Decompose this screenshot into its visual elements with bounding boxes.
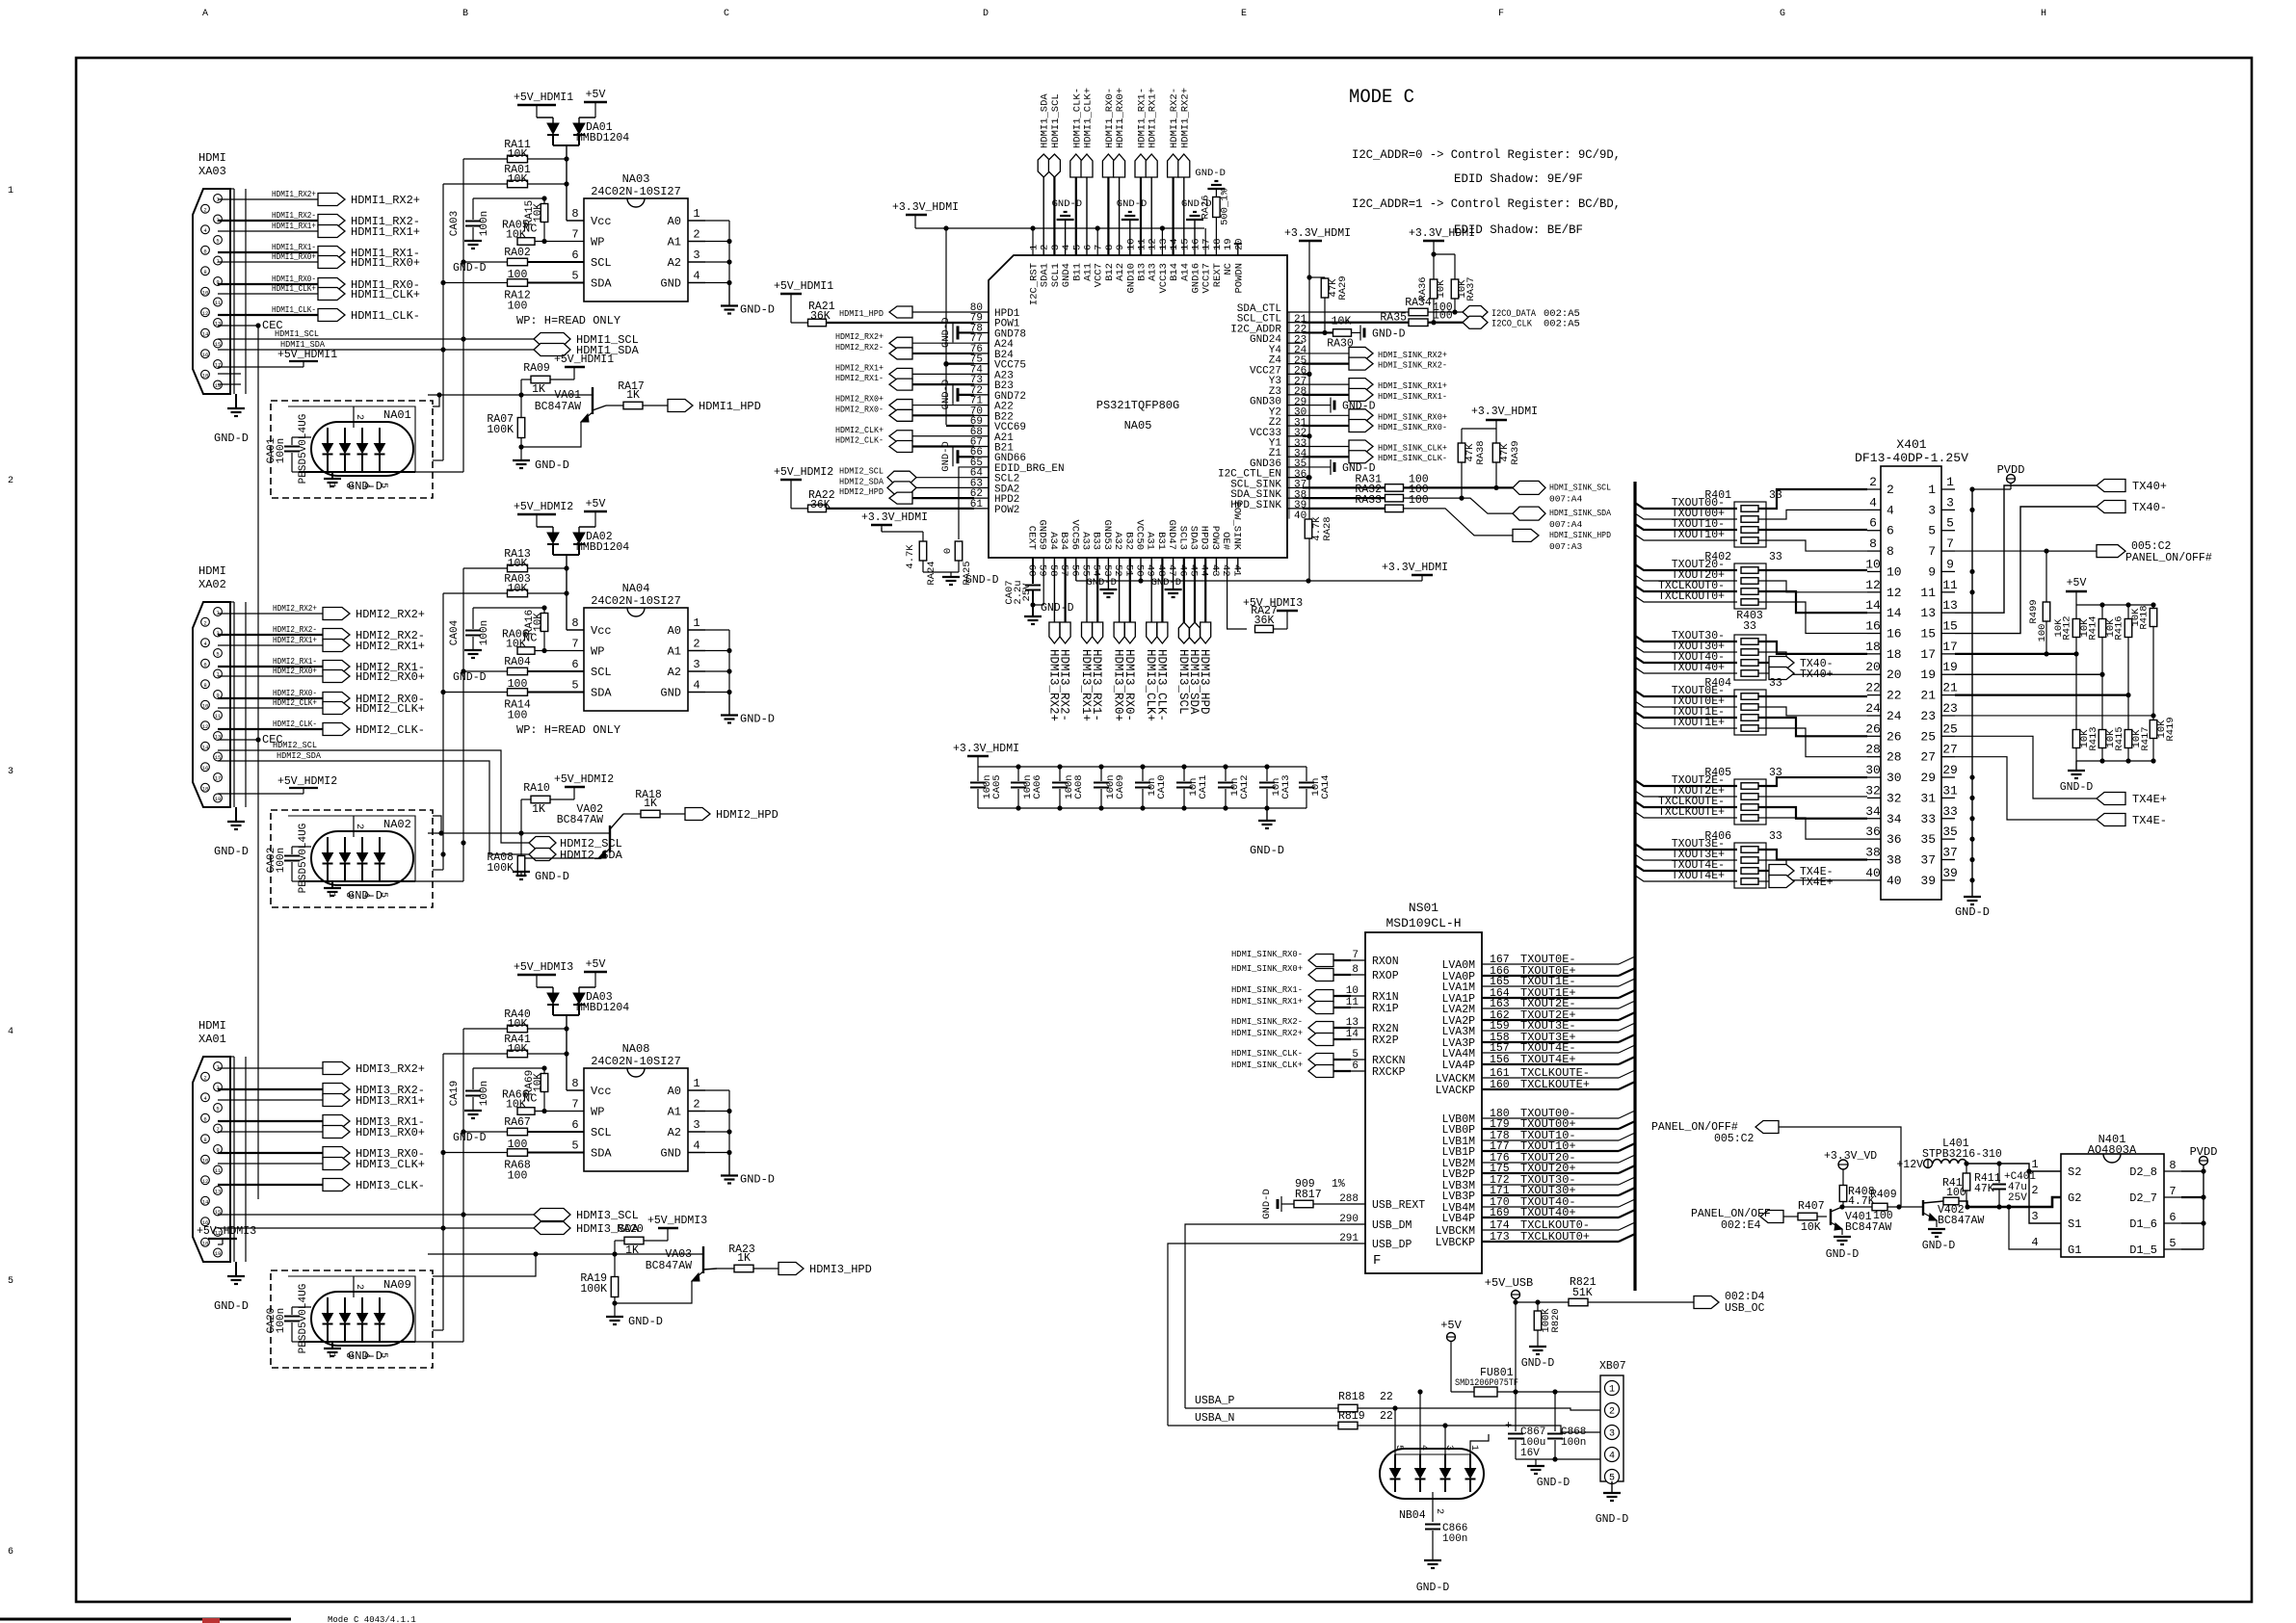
dual diode DA01 MMBD1204	[537, 117, 553, 118]
resistor R414 10K	[2101, 605, 2103, 619]
resistor RA25 0 vertical	[955, 541, 963, 561]
wire TXOUT40+	[1635, 668, 1737, 673]
svg-text:RX2P: RX2P	[1372, 1034, 1399, 1047]
svg-text:I2C_ADDR=1 -> Control Register: I2C_ADDR=1 -> Control Register: BC/BD,	[1352, 197, 1621, 211]
IC NA05 PS321TQFP80G body	[989, 255, 1287, 558]
wire TXOUT3E- to X401 pin 38	[1758, 850, 1867, 859]
svg-text:10K: 10K	[533, 203, 544, 223]
svg-text:12: 12	[1887, 586, 1902, 600]
svg-text:GND-D: GND-D	[348, 1349, 383, 1363]
ESD array NB04 stadium	[1380, 1449, 1484, 1499]
ground under C866	[1424, 1559, 1441, 1561]
svg-text:10K: 10K	[533, 1073, 544, 1092]
NB04 pin5 wire to USBA_P	[1394, 1408, 1396, 1454]
NA09 wires to SCL/SDA bus	[433, 1329, 443, 1331]
VA03 emitter	[615, 1271, 703, 1303]
net arrow HDMI3_RX0-	[323, 1147, 350, 1160]
net arrow HDMI2_CLK+ into NA05	[889, 431, 912, 442]
svg-text:4: 4	[1869, 495, 1877, 510]
wire CEC net XA03	[218, 325, 258, 327]
caps ground rail	[1516, 1458, 1555, 1460]
net arrow HDMI2_CLK-	[323, 723, 350, 736]
svg-text:MMBD1204: MMBD1204	[576, 1002, 629, 1014]
wire HDMI2_RX1+	[218, 644, 323, 646]
NA01 bottom rail	[299, 471, 415, 473]
svg-text:GND-D: GND-D	[535, 458, 569, 472]
svg-text:9: 9	[1946, 557, 1954, 571]
svg-text:10K: 10K	[508, 1018, 528, 1031]
wire HDMI_SINK_RX2-	[1303, 363, 1349, 365]
CA04 top wire to RA16	[473, 607, 544, 609]
resistor R499 100 on PANEL line	[2046, 551, 2097, 602]
svg-text:SCL: SCL	[591, 256, 612, 270]
svg-text:GND-D: GND-D	[1052, 198, 1083, 210]
svg-text:CA10: CA10	[1156, 774, 1168, 798]
svg-text:10K: 10K	[508, 558, 528, 570]
wire HDMI_SINK_RX1+	[1303, 383, 1349, 385]
NA02 bottom rail	[299, 880, 415, 882]
svg-text:4: 4	[1061, 245, 1072, 250]
hex tag HDMI2_SCL into NA05	[887, 471, 916, 484]
svg-text:4: 4	[2031, 1236, 2038, 1249]
svg-text:GND-D: GND-D	[740, 303, 775, 317]
svg-text:RX1P: RX1P	[1372, 1003, 1399, 1015]
wire USBA_N	[1168, 1425, 1338, 1427]
NA09 diode 4	[375, 1314, 385, 1323]
svg-text:HDMI_SINK_HPD: HDMI_SINK_HPD	[1549, 530, 1611, 540]
net arrow HDMI3_RX1-	[323, 1115, 350, 1128]
svg-text:10: 10	[1887, 564, 1902, 579]
svg-text:R414: R414	[2088, 615, 2099, 640]
svg-text:8: 8	[1869, 537, 1877, 551]
svg-text:HDMI2_RX1-: HDMI2_RX1-	[835, 373, 884, 383]
svg-text:HDMI3_RX2-: HDMI3_RX2-	[1058, 649, 1071, 721]
svg-text:HDMI1_RX0+: HDMI1_RX0+	[272, 251, 316, 262]
svg-text:11: 11	[215, 1167, 222, 1174]
svg-text:30: 30	[1887, 771, 1902, 785]
svg-text:1: 1	[693, 207, 699, 221]
svg-text:A33: A33	[1080, 532, 1092, 550]
svg-text:HDMI_SINK_RX1-: HDMI_SINK_RX1-	[1231, 984, 1303, 995]
NB04 diode 4	[1465, 1469, 1476, 1479]
svg-text:11: 11	[1920, 586, 1936, 600]
svg-text:8: 8	[571, 1077, 578, 1090]
wire TXOUT20- to X401 pin 10	[1758, 569, 1867, 571]
wire TXOUT0E- to X401 pin 22	[1758, 695, 1867, 697]
svg-text:500_1%: 500_1%	[1219, 188, 1230, 225]
NA02 wires to SCL/SDA bus	[433, 869, 443, 871]
svg-text:8: 8	[1104, 245, 1116, 250]
wire HDMI1_CLK+	[218, 293, 318, 295]
svg-text:8: 8	[1352, 964, 1359, 976]
wire TXOUT4E-	[1635, 865, 1737, 871]
svg-text:POW_SINK: POW_SINK	[1230, 502, 1242, 551]
svg-text:HDMI3_HPD: HDMI3_HPD	[1198, 649, 1211, 715]
svg-text:13: 13	[1920, 606, 1936, 620]
svg-text:WP: WP	[591, 1106, 604, 1119]
svg-text:1K: 1K	[626, 389, 640, 402]
resistor RA20 1K	[614, 1241, 616, 1254]
wire L401 to S2	[1966, 1164, 2061, 1171]
svg-text:LVA4P: LVA4P	[1441, 1060, 1475, 1072]
svg-text:SDA: SDA	[591, 277, 612, 291]
net tag HDMI3_RX2-	[1060, 622, 1070, 643]
resistor RA38 47K	[1461, 429, 1463, 443]
XA01 shield bus wires	[233, 1057, 235, 1262]
svg-text:9: 9	[1115, 245, 1126, 250]
svg-text:1: 1	[1029, 245, 1041, 250]
svg-text:14: 14	[1887, 606, 1902, 620]
svg-text:8: 8	[2169, 1159, 2176, 1172]
svg-text:HDMI2_HPD: HDMI2_HPD	[839, 486, 884, 497]
svg-text:R818: R818	[1338, 1391, 1365, 1403]
wire HDMI1_SCL to NA05 top	[1053, 175, 1055, 255]
svg-text:19: 19	[1223, 238, 1234, 250]
wire TXOUT30+	[1635, 646, 1737, 652]
svg-text:+5V: +5V	[586, 958, 606, 971]
svg-text:HDMI2_SCL: HDMI2_SCL	[839, 466, 884, 477]
VA02 emitter	[521, 849, 610, 858]
svg-text:GND53: GND53	[1101, 519, 1113, 550]
wire TXOUT0E-	[1635, 691, 1737, 696]
NA02 diode 4	[375, 853, 385, 863]
net arrow HDMI3_CLK+	[323, 1158, 350, 1170]
VCC17 wire	[1204, 228, 1206, 255]
svg-text:1: 1	[1609, 1385, 1615, 1396]
wire TXCLKOUT0+ to X401 pin 16	[1758, 602, 1867, 634]
wire HDMI1_SDA	[218, 349, 534, 351]
wire SDA_CTL to RA34	[1303, 311, 1409, 313]
svg-text:1%: 1%	[1332, 1178, 1345, 1191]
ground cap at NA05 left row 474.22	[952, 447, 954, 466]
svg-text:HDMI2_RX1+: HDMI2_RX1+	[273, 635, 317, 645]
3.3V rail at NA05 bottom	[1076, 580, 1422, 582]
svg-text:+5V_HDMI1: +5V_HDMI1	[774, 280, 833, 293]
svg-text:A: A	[202, 9, 208, 19]
svg-text:+5V_HDMI3: +5V_HDMI3	[1243, 597, 1303, 610]
svg-text:HDMI1_CLK+: HDMI1_CLK+	[1083, 88, 1095, 148]
svg-text:4: 4	[1609, 1452, 1615, 1462]
svg-text:D: D	[983, 9, 989, 19]
svg-text:MSD109CL-H: MSD109CL-H	[1386, 916, 1461, 930]
wire HDMI_SINK_RX0-	[1303, 425, 1349, 427]
svg-text:GND-D: GND-D	[1596, 1513, 1629, 1526]
NA01 inner outline	[288, 406, 415, 472]
svg-text:REXT: REXT	[1212, 263, 1224, 287]
wire to R821	[1516, 1301, 1569, 1303]
net arrow HDMI1_RX0-	[318, 278, 345, 291]
svg-text:RA37: RA37	[1465, 276, 1477, 301]
net arrow HDMI2_RX2- into NA05	[889, 348, 912, 359]
svg-text:A1: A1	[668, 1106, 681, 1119]
svg-text:22: 22	[1887, 689, 1902, 703]
svg-text:HDMI2_CLK-: HDMI2_CLK-	[356, 723, 425, 737]
wire TXOUT2E-	[1635, 780, 1737, 786]
svg-text:S2: S2	[2068, 1165, 2081, 1179]
svg-text:GND-D: GND-D	[1151, 577, 1182, 589]
svg-text:2: 2	[1869, 475, 1877, 489]
net tag HDMI3_RX1-	[1093, 622, 1103, 643]
svg-text:6: 6	[1887, 524, 1894, 538]
transistor VA03 BC847AW	[702, 1246, 704, 1273]
svg-text:36: 36	[1865, 825, 1881, 839]
svg-text:A2: A2	[668, 666, 681, 679]
resistor R409 100	[1842, 1206, 1872, 1208]
wire TX4E+ from pin25	[1955, 736, 2097, 798]
net arrow TX40+	[1758, 672, 1769, 674]
wire TX40+ from pin13	[1955, 485, 2097, 613]
wire HDMI2_RX0+	[218, 675, 323, 677]
svg-text:RA24: RA24	[926, 561, 937, 585]
svg-text:+5V_HDMI1: +5V_HDMI1	[277, 349, 337, 361]
wire C868 to XB07 pin4	[1555, 1458, 1600, 1460]
resistor network R403 33 ohm	[1734, 635, 1766, 680]
svg-text:2: 2	[8, 476, 13, 486]
svg-text:5: 5	[571, 270, 578, 283]
svg-text:GND-D: GND-D	[453, 262, 487, 275]
svg-text:7: 7	[1928, 544, 1936, 559]
wire HDMI3_RX0- from NA05 bottom	[1129, 558, 1131, 622]
svg-text:TX40+: TX40+	[1800, 668, 1834, 681]
svg-text:2: 2	[203, 206, 206, 213]
svg-text:RA39: RA39	[1510, 440, 1521, 464]
svg-text:GND-D: GND-D	[1521, 1357, 1555, 1370]
svg-text:15: 15	[1920, 627, 1936, 641]
svg-text:I2CO_CLK: I2CO_CLK	[1491, 319, 1533, 330]
svg-text:19: 19	[1920, 668, 1936, 682]
ground under V402	[1928, 1228, 1945, 1230]
wire TXOUT10+ to X401 pin 8	[1758, 540, 1867, 551]
VA01 emitter	[521, 412, 593, 447]
resistor R418 10K	[2152, 605, 2154, 608]
svg-text:+5V_HDMI3: +5V_HDMI3	[647, 1215, 707, 1227]
VCC7 wire	[1096, 228, 1098, 255]
capacitor CA14 10n	[1306, 767, 1307, 781]
NS01 left pins	[1351, 959, 1365, 961]
svg-text:+5V_USB: +5V_USB	[1485, 1276, 1533, 1290]
svg-text:24: 24	[1865, 701, 1881, 716]
wire HPD base net to VA01	[428, 394, 593, 396]
wire S1 to source node	[2029, 1171, 2061, 1223]
svg-text:HDMI3_HPD: HDMI3_HPD	[809, 1263, 872, 1276]
net arrow HDMI1_RX0+	[318, 256, 345, 269]
svg-text:HDMI_SINK_CLK-: HDMI_SINK_CLK-	[1231, 1048, 1303, 1059]
svg-text:+3.3V_HDMI: +3.3V_HDMI	[892, 201, 959, 214]
svg-text:+3.3V_HDMI: +3.3V_HDMI	[1382, 562, 1448, 574]
svg-text:46: 46	[1176, 564, 1188, 577]
wire TXOUT40-	[1635, 657, 1737, 663]
ground under RA07	[513, 459, 530, 461]
svg-text:HDMI_SINK_RX2-: HDMI_SINK_RX2-	[1231, 1016, 1303, 1027]
svg-text:HDMI2_CLK-: HDMI2_CLK-	[835, 434, 884, 445]
capacitor CA13 10n	[1266, 767, 1268, 781]
svg-text:HDMI3_CLK-: HDMI3_CLK-	[1154, 649, 1168, 721]
NA02 ground	[331, 881, 333, 888]
VCC13 wire	[1161, 228, 1163, 255]
svg-text:GND16: GND16	[1191, 263, 1202, 294]
svg-text:GND-D: GND-D	[740, 1173, 775, 1187]
net arrow HDMI_SINK_RX2+	[1349, 347, 1373, 359]
svg-text:MODE C: MODE C	[1349, 87, 1414, 109]
svg-text:24: 24	[1887, 709, 1902, 723]
svg-text:GND59: GND59	[1037, 519, 1048, 550]
svg-text:R409: R409	[1870, 1189, 1897, 1201]
svg-text:RA02: RA02	[504, 247, 531, 259]
wire HDMI1_RX0- to NA05 top	[1107, 175, 1109, 255]
net tag HDMI3_RX0-	[1124, 622, 1135, 643]
svg-text:OE#: OE#	[1220, 532, 1231, 550]
svg-text:27: 27	[1942, 743, 1958, 757]
resistor R415 10K lower	[2101, 674, 2103, 730]
wire HDMI1_RX0-	[218, 283, 318, 285]
svg-text:HDMI3_RX1+: HDMI3_RX1+	[356, 1094, 425, 1108]
svg-text:3: 3	[2031, 1210, 2038, 1223]
svg-text:26: 26	[1865, 721, 1881, 736]
wire HDMI_SINK_RX2+	[1333, 1038, 1351, 1040]
svg-text:TXOUT4E+: TXOUT4E+	[1672, 870, 1725, 882]
svg-text:R499: R499	[2028, 599, 2040, 623]
wire HDMI2_CLK+	[912, 435, 974, 437]
svg-text:USBA_P: USBA_P	[1195, 1395, 1235, 1407]
svg-text:R413: R413	[2088, 726, 2099, 750]
power +5V at FU801	[1447, 1333, 1456, 1342]
svg-text:290: 290	[1339, 1214, 1359, 1225]
ESD diode array NA01 dashed enclosure	[271, 401, 433, 498]
capacitor CA06 100n	[1017, 767, 1019, 781]
svg-text:16: 16	[202, 352, 209, 358]
NA01 diode 2	[340, 444, 351, 454]
resistor R404.1	[1741, 694, 1758, 700]
net arrow HDMI_SINK_RX2- into NS01	[1308, 1022, 1333, 1034]
wire HDMI_SINK_CLK-	[1333, 1059, 1351, 1060]
svg-text:RA38: RA38	[1475, 440, 1487, 464]
svg-text:NA08: NA08	[622, 1042, 650, 1056]
svg-text:40: 40	[1865, 866, 1881, 880]
svg-text:100n: 100n	[479, 211, 490, 236]
svg-text:S1: S1	[2068, 1217, 2081, 1231]
svg-text:GND-D: GND-D	[1250, 844, 1284, 857]
resistor R416 10K	[2127, 605, 2129, 619]
svg-text:R820: R820	[1550, 1308, 1562, 1332]
net arrow HDMI_SINK_RX1- into NS01	[1308, 990, 1333, 1003]
net arrow TX4E-	[2097, 814, 2125, 826]
svg-text:RA20: RA20	[617, 1223, 644, 1236]
svg-text:B11: B11	[1071, 263, 1083, 281]
svg-text:R407: R407	[1798, 1200, 1825, 1213]
svg-text:PANEL_ON/OFF#: PANEL_ON/OFF#	[2125, 552, 2212, 564]
resistor RA37 10K vertical	[1434, 253, 1455, 255]
svg-text:PVDD: PVDD	[2190, 1145, 2218, 1159]
svg-text:SDA: SDA	[591, 1147, 612, 1161]
ground under RA24/RA25	[923, 571, 959, 573]
wire HDMI3_CLK+	[218, 1163, 323, 1165]
net tag HDMI3_CLK-	[1157, 622, 1168, 643]
svg-text:VCC50: VCC50	[1134, 519, 1146, 550]
net arrow HDMI3_CLK-	[323, 1179, 350, 1191]
wire TXOUT00+	[1635, 513, 1737, 519]
wire pin17 row	[1955, 653, 2076, 655]
ground flag at RA30	[1359, 325, 1361, 340]
wire HDMI2_RX2+	[218, 613, 323, 615]
resistor R402.3	[1741, 589, 1758, 595]
svg-text:HDMI_SINK_CLK+: HDMI_SINK_CLK+	[1378, 442, 1447, 453]
resistor RA16 10K vertical	[541, 614, 548, 632]
resistor R401.2	[1741, 516, 1758, 523]
resistor RA18 1K output	[623, 813, 641, 815]
wire drain bus to PVDD	[2203, 1165, 2204, 1249]
wire HDMI_SINK_RX2+	[1303, 353, 1349, 354]
svg-text:17: 17	[1942, 640, 1958, 654]
transistor VA02 BC847AW	[609, 825, 611, 852]
wire TXOUT00+ to X401 pin 4	[1758, 510, 1867, 519]
svg-text:HDMI1_HPD: HDMI1_HPD	[699, 400, 761, 413]
resistor RA10 1K	[520, 799, 522, 833]
svg-text:1: 1	[693, 616, 699, 630]
svg-text:HDMI2_CLK-: HDMI2_CLK-	[273, 719, 317, 729]
svg-text:POW3: POW3	[1209, 526, 1221, 550]
wire HDMI1_RX2- to NA05 top	[1172, 175, 1174, 255]
svg-text:10K: 10K	[1436, 279, 1447, 299]
svg-text:+5V: +5V	[1440, 1319, 1462, 1332]
svg-text:E: E	[1241, 9, 1247, 19]
svg-text:45: 45	[1188, 564, 1200, 577]
svg-text:GND-D: GND-D	[1117, 198, 1148, 210]
svg-text:2: 2	[1434, 1508, 1444, 1514]
svg-text:10: 10	[202, 289, 209, 296]
NA02 stadium body	[311, 831, 413, 885]
svg-text:10K: 10K	[1332, 315, 1352, 327]
svg-text:HDMI3_RX0+: HDMI3_RX0+	[356, 1126, 425, 1139]
NA01 diode 3	[357, 444, 368, 454]
svg-text:39: 39	[1942, 866, 1958, 880]
svg-text:GND-D: GND-D	[1372, 327, 1406, 340]
svg-text:NC: NC	[1223, 263, 1234, 275]
svg-text:R412: R412	[2062, 615, 2073, 640]
wire NA09 to VA03 base jog	[433, 1254, 536, 1276]
svg-text:14: 14	[202, 744, 209, 750]
XA02 ground	[235, 807, 237, 822]
svg-text:HDMI1_CLK-: HDMI1_CLK-	[272, 304, 316, 315]
cap bank top rail	[978, 766, 1306, 768]
svg-text:HDMI1_RX0+: HDMI1_RX0+	[1115, 88, 1126, 148]
ground under X401 bus	[1964, 896, 1981, 898]
ground at NA05 top pin 16	[1194, 220, 1196, 255]
ground under CA19	[464, 1110, 482, 1112]
resistor RA69 10K vertical	[541, 1074, 548, 1092]
next sheet edge line bottom-left	[0, 1618, 291, 1621]
wire HDMI3_RX2-	[218, 1088, 323, 1090]
capacitor CA08 100n	[1059, 767, 1061, 781]
svg-text:3: 3	[693, 1118, 699, 1132]
net tag HDMI3_RX0+	[1114, 622, 1124, 643]
svg-text:HDMI1_SCL: HDMI1_SCL	[1050, 93, 1062, 148]
wire HDMI2_RX2-	[912, 353, 974, 354]
svg-text:33: 33	[1769, 677, 1782, 690]
svg-text:TXOUT40+: TXOUT40+	[1672, 662, 1725, 674]
svg-text:GND-D: GND-D	[1922, 1240, 1956, 1252]
wire HDMI1_RX2+ to NA05 top	[1183, 175, 1185, 255]
svg-text:25V: 25V	[1021, 583, 1033, 602]
wire NA01 to VA01 base jog	[433, 395, 439, 406]
svg-text:5: 5	[1352, 1049, 1359, 1060]
svg-text:+3.3V_HDMI: +3.3V_HDMI	[1284, 227, 1351, 240]
svg-text:GND-D: GND-D	[348, 889, 383, 903]
transistor V402 BC847AW	[1922, 1200, 1924, 1216]
wire HPD base net to VA03	[521, 1253, 703, 1255]
svg-text:GND-D: GND-D	[1416, 1582, 1450, 1594]
svg-text:GND-D: GND-D	[628, 1315, 663, 1328]
wire HDMI1_SCL	[218, 338, 534, 340]
